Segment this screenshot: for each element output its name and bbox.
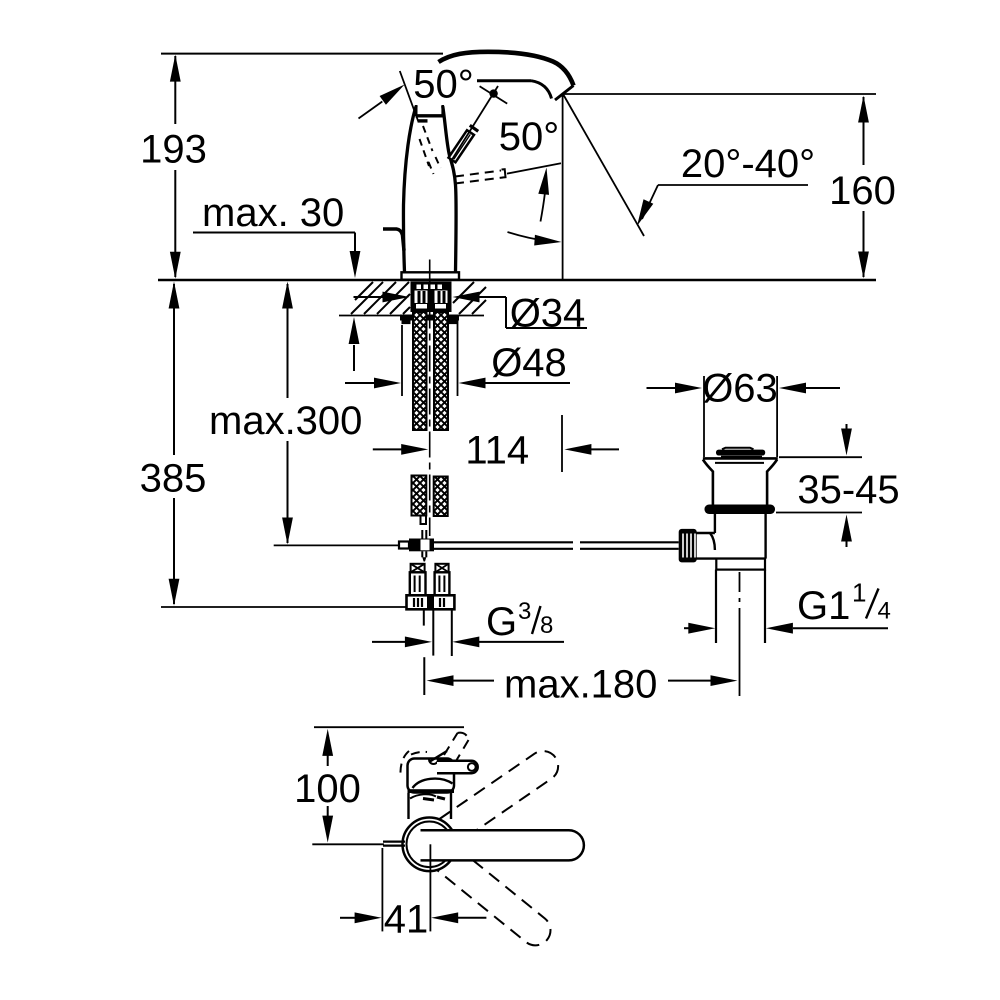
svg-text:114: 114 xyxy=(465,429,529,473)
dimension Ø63 xyxy=(647,367,841,411)
plan: escutcheon circle xyxy=(403,818,457,872)
lower reference line (hose ends plane) xyxy=(161,606,455,608)
open lever end cap xyxy=(502,169,506,177)
hidden cartridge dashes xyxy=(420,126,441,174)
lever handle xyxy=(449,125,479,162)
svg-text:41: 41 xyxy=(384,898,429,942)
svg-text:385: 385 xyxy=(140,457,207,501)
svg-text:100: 100 xyxy=(294,767,361,811)
deck underside line xyxy=(339,315,484,317)
flexible hoses lower xyxy=(412,476,448,525)
rubber washer xyxy=(705,505,776,515)
svg-text:193: 193 xyxy=(140,128,207,172)
countertop line xyxy=(158,279,876,282)
spout tip vertical reference line xyxy=(562,94,564,280)
plan: body shoulder band xyxy=(408,789,455,793)
dimension 41 xyxy=(340,844,486,941)
lever axis construction line xyxy=(451,86,498,161)
faucet neck cap xyxy=(416,105,445,121)
plan: dashed spout tip xyxy=(444,733,469,761)
svg-text:50°: 50° xyxy=(413,63,474,107)
dimension 114 xyxy=(373,429,619,473)
dimension Ø34 xyxy=(354,292,588,336)
drain centerline xyxy=(739,572,741,696)
Ø48 extension lines xyxy=(402,320,458,396)
svg-text:Ø63: Ø63 xyxy=(702,367,778,411)
swivel leader arrow xyxy=(359,80,408,118)
open lever dashed outline xyxy=(455,171,503,184)
svg-text:G: G xyxy=(486,600,517,644)
faucet base flange xyxy=(402,272,460,279)
Ø63 extension lines xyxy=(704,376,777,457)
flexible hoses upper xyxy=(413,312,448,430)
svg-text:4: 4 xyxy=(878,598,891,625)
svg-text:50°: 50° xyxy=(499,115,560,159)
plan: column sketch arc xyxy=(410,794,436,798)
svg-text:160: 160 xyxy=(829,169,896,213)
horizontal actuating rod xyxy=(434,542,679,549)
dimension G 3/8 xyxy=(372,598,564,647)
plan: dashed swivel arcs xyxy=(400,751,427,777)
svg-text:3: 3 xyxy=(518,598,531,625)
hose end fittings xyxy=(407,564,455,610)
dimension 100 xyxy=(294,729,361,843)
svg-text:1: 1 xyxy=(852,578,866,608)
drain flange xyxy=(703,458,778,504)
plan: dashed lever down position xyxy=(437,847,556,952)
faucet body outline xyxy=(403,106,456,272)
spout height reference line xyxy=(563,93,876,95)
svg-text:Ø34: Ø34 xyxy=(510,292,586,336)
deck hatch left xyxy=(351,282,410,314)
spout inner curve xyxy=(477,81,552,99)
plan: faucet body top xyxy=(408,751,455,793)
tailpipe xyxy=(716,570,765,643)
pivot cross line xyxy=(480,86,508,103)
svg-text:20°-40°: 20°-40° xyxy=(681,142,815,186)
svg-text:max.180: max.180 xyxy=(504,663,657,707)
spout outer curve xyxy=(439,52,574,86)
knurled adjuster knob xyxy=(679,529,697,563)
svg-text:G1: G1 xyxy=(797,584,850,628)
drain body xyxy=(696,514,765,559)
dimension 193 xyxy=(140,55,207,279)
open lever extension line xyxy=(507,163,561,173)
flow angle diagonal line xyxy=(563,94,644,236)
threaded shank xyxy=(411,282,452,313)
plan: body column xyxy=(409,793,452,819)
coupling ring xyxy=(716,559,765,570)
pull rod and clevis xyxy=(399,530,434,562)
lever angle arc right arrow xyxy=(508,232,562,247)
dimension 385 xyxy=(140,282,207,606)
plan bottom reference line xyxy=(312,843,384,845)
pop-up rod hook behind body xyxy=(383,229,404,251)
plan: spout base ellipse xyxy=(413,779,453,788)
svg-text:Ø48: Ø48 xyxy=(491,341,567,385)
label max. 30 with leader xyxy=(193,191,360,371)
pop-up cap xyxy=(716,448,765,457)
plan: aerator marks xyxy=(423,797,445,800)
lever angle arc up arrow xyxy=(538,167,552,222)
dimension G1 1/4 xyxy=(684,578,891,634)
faucet centerline xyxy=(429,260,431,537)
pivot dot xyxy=(489,89,497,97)
dimension Ø48 xyxy=(345,341,570,388)
spout outlet face xyxy=(555,86,574,101)
deck hatch right xyxy=(453,282,486,314)
plan top reference line xyxy=(314,726,464,728)
dimension 160 xyxy=(829,96,896,279)
dimension max.180 xyxy=(424,657,737,706)
114 right extension line xyxy=(561,415,563,472)
dimension max.300 xyxy=(209,282,362,545)
svg-text:max.300: max.300 xyxy=(209,399,362,443)
supply pipe below xyxy=(424,611,452,657)
mounting flange under deck xyxy=(400,315,459,325)
plan: dashed lever up position xyxy=(439,745,564,844)
rod linkage reference line xyxy=(274,544,400,546)
top reference line xyxy=(161,53,443,55)
svg-text:35-45: 35-45 xyxy=(797,468,899,512)
label 20-40 deg with leader xyxy=(632,142,815,228)
plan: rod stub xyxy=(383,842,405,846)
plan: lever pivot pin xyxy=(437,761,478,773)
rotated spout construction line xyxy=(400,71,419,122)
svg-text:8: 8 xyxy=(540,612,553,639)
dimension 35-45 xyxy=(776,424,900,547)
svg-text:max. 30: max. 30 xyxy=(202,191,344,235)
plan: solid lever xyxy=(421,830,584,860)
